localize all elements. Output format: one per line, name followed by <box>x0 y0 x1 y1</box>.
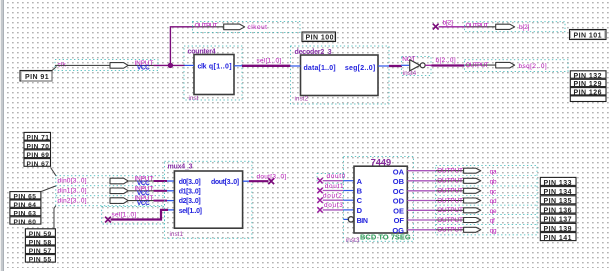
svg-text:mux4_3: mux4_3 <box>168 164 193 171</box>
pin box PIN_139 <box>540 223 576 232</box>
node sel[1..0] dangling X <box>105 217 111 223</box>
pin box PIN_132 <box>570 71 606 80</box>
svg-text:BCD TO 7SEG: BCD TO 7SEG <box>360 233 411 242</box>
svg-text:B: B <box>357 187 363 196</box>
block mux4_3 boundary <box>164 161 252 238</box>
output pin bsq[2..0] <box>465 62 547 70</box>
svg-text:q[1..0]: q[1..0] <box>209 64 232 71</box>
pin box PIN_67 <box>24 159 51 168</box>
svg-text:seg[2..0]: seg[2..0] <box>345 65 376 72</box>
svg-text:D: D <box>357 206 363 215</box>
svg-text:C: C <box>357 196 363 205</box>
pin box PIN_60 <box>10 217 41 226</box>
svg-text:qe: qe <box>490 208 497 215</box>
svg-text:inst: inst <box>189 95 199 102</box>
leader PIN_65 to din1 <box>41 186 56 192</box>
output pin clkout boundary <box>193 22 301 33</box>
wire qb <box>407 180 436 182</box>
wire bus sel[1..0] <box>242 65 291 67</box>
output pin qc <box>436 188 497 196</box>
net dout3 <box>317 202 354 213</box>
pin box PIN_70 <box>24 141 51 150</box>
svg-text:dout1: dout1 <box>325 183 345 190</box>
svg-text:qa: qa <box>490 168 497 175</box>
svg-text:inst1: inst1 <box>170 231 184 238</box>
pin box PIN_69 <box>24 150 51 159</box>
svg-text:qc: qc <box>490 189 497 196</box>
svg-text:PIN 57: PIN 57 <box>29 248 52 255</box>
svg-text:inst3: inst3 <box>346 237 360 244</box>
svg-text:data[1..0]: data[1..0] <box>304 65 336 72</box>
block counter4 <box>185 48 243 102</box>
svg-text:b[2]: b[2] <box>519 24 530 31</box>
block decoder2_3 <box>291 49 390 103</box>
input pin din2[3..0] <box>58 195 154 207</box>
wire bus b[2..0] <box>432 64 465 66</box>
wire din0 bus <box>154 180 168 182</box>
wire clk to clkout <box>170 27 193 66</box>
svg-text:OUTPUT: OUTPUT <box>437 188 463 195</box>
pin box PIN_133 <box>540 177 576 186</box>
svg-text:OUTPUT: OUTPUT <box>437 217 463 224</box>
svg-text:OUTPUT: OUTPUT <box>437 207 463 214</box>
svg-text:bsq[2..0]: bsq[2..0] <box>519 63 548 70</box>
svg-text:din2[3..0]: din2[3..0] <box>58 197 87 204</box>
svg-text:PIN 139: PIN 139 <box>544 226 572 233</box>
svg-text:PIN 91: PIN 91 <box>25 74 49 81</box>
svg-text:A: A <box>357 177 363 186</box>
block 7449 boundary <box>343 157 413 242</box>
wire qd <box>407 200 436 202</box>
svg-text:OA: OA <box>393 167 405 176</box>
svg-text:inst4: inst4 <box>403 70 417 77</box>
svg-text:clkout: clkout <box>248 24 268 31</box>
net dout0 <box>317 173 354 183</box>
svg-text:qd: qd <box>490 198 497 205</box>
svg-text:PIN 100: PIN 100 <box>306 35 334 42</box>
svg-text:clk: clk <box>198 64 207 71</box>
block counter4 boundary <box>184 46 242 100</box>
svg-text:PIN 69: PIN 69 <box>27 152 50 159</box>
svg-text:PIN 71: PIN 71 <box>27 135 50 142</box>
pin box PIN_91 <box>20 71 52 82</box>
pin box PIN_58 <box>25 237 55 246</box>
svg-text:PIN 59: PIN 59 <box>29 231 52 238</box>
input pin din1[3..0] <box>58 185 154 197</box>
svg-text:PIN 136: PIN 136 <box>544 207 572 214</box>
svg-text:qg: qg <box>490 228 497 235</box>
wire qa <box>407 170 436 172</box>
svg-text:VCC: VCC <box>137 200 150 207</box>
svg-text:sel[1..0]: sel[1..0] <box>257 57 282 64</box>
node dout[3..0] dangling X <box>268 178 274 184</box>
pin box PIN_65 <box>10 192 41 201</box>
svg-text:PIN 60: PIN 60 <box>14 219 37 226</box>
output pin qa <box>436 168 497 176</box>
output pin b[2] <box>465 23 530 32</box>
output pin qf <box>436 217 495 225</box>
output pin clkout <box>194 22 268 31</box>
net dout0 boundary <box>317 173 343 183</box>
svg-text:PIN 58: PIN 58 <box>29 240 52 247</box>
svg-text:din1[3..0]: din1[3..0] <box>58 187 87 194</box>
pin box PIN_55 <box>25 255 55 264</box>
pin box PIN_136 <box>540 205 576 214</box>
wire b[2] <box>439 26 465 28</box>
input flag clk <box>110 63 128 69</box>
svg-text:BIN: BIN <box>357 218 368 225</box>
svg-text:PIN 55: PIN 55 <box>29 257 52 264</box>
svg-text:PIN 133: PIN 133 <box>544 180 572 187</box>
svg-text:inst2: inst2 <box>295 96 309 103</box>
output pin b[2] boundary <box>465 22 566 32</box>
svg-text:OUTPUT: OUTPUT <box>437 178 463 185</box>
svg-text:PIN 132: PIN 132 <box>574 73 602 80</box>
svg-text:OUTPUT: OUTPUT <box>437 197 463 204</box>
svg-text:PIN 135: PIN 135 <box>544 198 572 205</box>
svg-text:OD: OD <box>393 197 405 206</box>
svg-text:PIN 141: PIN 141 <box>544 235 572 242</box>
junction clk node <box>168 63 173 68</box>
wire din2 bus <box>154 200 168 202</box>
pin box PIN_57 <box>25 246 55 255</box>
block decoder2_3 boundary <box>291 46 390 104</box>
output pins qa-qg boundary <box>436 166 537 235</box>
pin box PIN_100 <box>302 32 336 42</box>
input pin clk boundary <box>55 60 158 71</box>
output pin qg <box>436 227 497 235</box>
pin box PIN_101 <box>570 30 607 40</box>
svg-text:PIN 134: PIN 134 <box>544 189 572 196</box>
svg-text:PIN 101: PIN 101 <box>574 33 602 40</box>
svg-text:OUTPUT: OUTPUT <box>437 227 463 234</box>
wire dout[3..0] <box>243 180 249 182</box>
gate NOT boundary <box>402 57 432 76</box>
block 7449 <box>343 157 410 244</box>
svg-text:OUTPUT: OUTPUT <box>466 23 489 30</box>
wire din1 bus <box>154 190 168 192</box>
wire qg <box>407 229 436 231</box>
wire qc <box>407 190 436 192</box>
svg-text:OUTPUT: OUTPUT <box>437 168 463 175</box>
window left edge <box>0 0 1 271</box>
input din0 boundary <box>56 176 165 206</box>
svg-text:OUTPUT: OUTPUT <box>466 62 489 69</box>
svg-text:PIN 67: PIN 67 <box>27 161 50 168</box>
output pin qe <box>436 207 497 215</box>
svg-text:dout3: dout3 <box>324 202 344 209</box>
svg-text:d2[3..0]: d2[3..0] <box>179 198 201 205</box>
svg-text:OF: OF <box>394 216 405 225</box>
wire qf <box>407 219 436 221</box>
pin box PIN_137 <box>540 214 576 223</box>
pin box PIN_141 <box>540 233 576 242</box>
net dout2 <box>317 192 354 203</box>
pin box empty <box>570 96 606 102</box>
leader PIN_91 <box>52 67 57 71</box>
svg-text:clk: clk <box>58 61 67 68</box>
svg-text:dout[3..0]: dout[3..0] <box>257 173 287 180</box>
pin box PIN_64 <box>10 200 41 209</box>
svg-text:b[2..0]: b[2..0] <box>436 57 457 64</box>
svg-text:qf: qf <box>490 218 495 225</box>
svg-text:din0[3..0]: din0[3..0] <box>58 178 87 185</box>
svg-text:OB: OB <box>393 177 405 186</box>
svg-text:sel[1..0]: sel[1..0] <box>179 208 202 215</box>
leader PIN_67 to din0 <box>51 167 57 175</box>
output pin qd <box>436 197 497 205</box>
net sel[1..0] boundary <box>102 207 165 225</box>
pin box PIN_134 <box>540 187 576 196</box>
svg-text:OE: OE <box>393 206 404 215</box>
wire bus decoder to NOT <box>389 65 402 67</box>
output pin bsq boundary <box>465 60 569 72</box>
net dout1 <box>317 183 354 193</box>
wire clk pin lead <box>55 64 110 66</box>
output pin qb <box>436 178 497 186</box>
svg-text:sel[1..0]: sel[1..0] <box>112 212 137 219</box>
block mux4_3 <box>168 164 243 238</box>
svg-text:dout[3..0]: dout[3..0] <box>211 179 239 186</box>
pin box PIN_126 <box>570 88 606 97</box>
leader din2 to PIN_59 <box>54 206 56 229</box>
pin box PIN_71 <box>24 132 51 141</box>
svg-text:PIN 70: PIN 70 <box>27 143 50 150</box>
pin box PIN_59 <box>25 229 55 238</box>
pin box PIN_135 <box>540 196 576 205</box>
pin box PIN_129 <box>570 79 606 88</box>
svg-text:VCC: VCC <box>137 65 150 72</box>
input pin din0[3..0] <box>58 176 154 188</box>
svg-text:PIN 137: PIN 137 <box>544 217 572 224</box>
svg-text:d0[3..0]: d0[3..0] <box>179 179 201 186</box>
svg-text:dout2: dout2 <box>323 192 343 199</box>
svg-text:qb: qb <box>490 179 497 186</box>
wire clk net <box>154 64 185 66</box>
pin box PIN_63 <box>10 208 41 217</box>
node b[2] dangling X <box>433 19 453 29</box>
wire qe <box>407 209 436 211</box>
gate NOT inst4 <box>402 56 432 77</box>
svg-text:OUTPUT: OUTPUT <box>195 22 218 29</box>
wire sel[1..0] <box>111 210 169 220</box>
svg-text:d1[3..0]: d1[3..0] <box>179 189 201 196</box>
svg-text:b[2]: b[2] <box>443 19 454 26</box>
svg-text:OC: OC <box>393 187 405 196</box>
